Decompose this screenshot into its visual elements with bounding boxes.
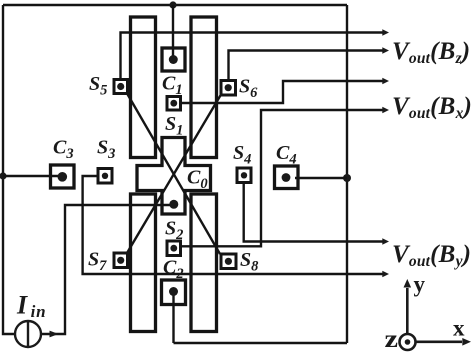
wire: C1 top feed xyxy=(172,5,174,59)
arrowhead: Vout(Bz) upper xyxy=(382,29,389,35)
node: S4 dot xyxy=(241,172,247,178)
hall bar bottom-left xyxy=(131,194,156,332)
arrowhead: Iin output xyxy=(50,331,59,338)
node: C0 dot xyxy=(169,200,178,209)
wire: S5 to Vout(Bz) upper arrow xyxy=(121,33,386,81)
contact S8 small box xyxy=(221,254,236,269)
contact S6 small box xyxy=(221,81,236,96)
node: S8 dot xyxy=(225,258,232,265)
node: S7 dot xyxy=(117,257,124,264)
contact S1 small box xyxy=(167,97,181,111)
wire: C2 bottom contact drop xyxy=(172,291,174,343)
node: S3 dot xyxy=(102,173,108,179)
wire: C4 branch xyxy=(295,177,347,179)
wire: S3 to Vout(By) lower arrow xyxy=(83,176,385,274)
node: S6 dot xyxy=(225,84,232,91)
contact S3 small box xyxy=(98,169,112,184)
contact S2 small box xyxy=(167,241,181,256)
node: C2 dot xyxy=(169,287,178,296)
hall bar bottom-right xyxy=(191,194,217,332)
svg-text:z: z xyxy=(385,326,399,353)
arrowhead: Vout(Bx) lower xyxy=(382,107,389,113)
wire: C3 branch xyxy=(3,175,62,177)
hall bar top-right xyxy=(191,17,217,158)
wire: S6 to Vout(Bz) lower arrow xyxy=(229,51,386,82)
wire: bottom loop horizontal xyxy=(174,342,348,344)
wire: S2 to Vout(Bx) lower arrow xyxy=(180,110,385,246)
coordinate axes x y z xyxy=(400,288,463,350)
contact region C0 cross xyxy=(137,138,211,215)
wire: S4 to Vout(By) upper arrow xyxy=(244,182,385,242)
node: S2 dot xyxy=(170,245,177,252)
wire: left loop vertical xyxy=(3,5,16,334)
wire: diagonal S6 to S7 xyxy=(127,95,221,254)
node: C3 dot xyxy=(58,172,68,182)
svg-text:x: x xyxy=(453,316,465,341)
contact S5 small box xyxy=(114,80,128,94)
svg-text:y: y xyxy=(414,272,426,297)
contact S4 small box xyxy=(237,168,251,183)
node: junction on right loop feeding C4 xyxy=(343,174,351,182)
wire: top loop horizontal xyxy=(3,4,347,6)
node: junction on left wire feeding C3 xyxy=(0,172,7,179)
hall bar top-left xyxy=(131,17,156,158)
wire: diagonal S5 to S8 xyxy=(127,93,220,254)
wire: Iin output to C0 xyxy=(41,205,173,334)
arrowhead: Vout(By) upper xyxy=(382,238,389,244)
contact C2 bottom square xyxy=(162,280,186,305)
arrowhead: Vout(Bz) lower xyxy=(382,47,389,53)
node: C1 dot xyxy=(169,55,178,64)
contact C4 square xyxy=(275,166,299,189)
contact S7 small box xyxy=(114,253,128,268)
node: S1 dot xyxy=(170,100,177,107)
arrowhead: Vout(Bx) upper xyxy=(382,78,389,84)
node: S5 dot xyxy=(117,83,124,90)
wire: right loop vertical xyxy=(346,5,348,343)
contact C3 square xyxy=(51,165,75,188)
contact C1 top square xyxy=(162,48,185,71)
wire: S1 to Vout(Bx) upper arrow xyxy=(180,81,385,103)
current source I_in xyxy=(15,320,41,348)
node: junction on top wire feeding C1 xyxy=(169,1,176,8)
node: C4 dot xyxy=(282,173,291,182)
arrowhead: Vout(By) lower xyxy=(382,271,389,277)
